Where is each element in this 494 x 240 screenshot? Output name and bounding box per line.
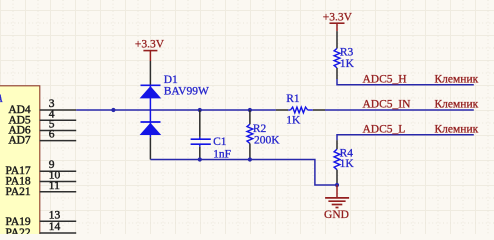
pin 11 (PA21) bbox=[6, 180, 77, 198]
svg-text:ADC5_IN: ADC5_IN bbox=[363, 99, 412, 111]
bottom net wire (diode/C1/R2 commons to GND) bbox=[150, 160, 337, 186]
svg-text:+3.3V: +3.3V bbox=[135, 39, 165, 51]
net label ADC5_H bbox=[363, 74, 407, 86]
wire power to D1 bbox=[149, 61, 151, 85]
resistor R4 1K bbox=[334, 140, 354, 185]
pin 10 (PA18) bbox=[6, 170, 77, 188]
D1 labels bbox=[164, 74, 209, 97]
IC U? body (partial, clipped at left/bottom) bbox=[0, 86, 40, 240]
svg-text:C1: C1 bbox=[213, 136, 227, 148]
svg-text:1nF: 1nF bbox=[213, 149, 231, 161]
net label ADC5_IN bbox=[363, 99, 412, 111]
pin 9 (PA17) bbox=[6, 159, 77, 177]
junction R2 tap bbox=[248, 108, 252, 112]
svg-text:Клемник: Клемник bbox=[435, 99, 479, 111]
diode D1 BAV99W (dual, stacked) bbox=[140, 85, 162, 137]
wire ADC5_L bbox=[337, 135, 474, 141]
svg-text:Клемник: Клемник bbox=[435, 74, 479, 86]
svg-text:1K: 1K bbox=[340, 158, 355, 170]
svg-text:PA22: PA22 bbox=[6, 227, 31, 234]
power +3.3V (right) bbox=[323, 12, 353, 31]
svg-text:R2: R2 bbox=[253, 123, 267, 135]
svg-text:11: 11 bbox=[49, 180, 60, 192]
ground GND bbox=[324, 185, 349, 221]
pin 13 (PA19) bbox=[6, 209, 77, 228]
svg-text:R3: R3 bbox=[340, 47, 354, 59]
IC designator tail "A" bbox=[0, 93, 4, 105]
svg-text:13: 13 bbox=[49, 209, 61, 221]
junction C1 tap bbox=[198, 108, 202, 112]
D1 bottom pin bbox=[149, 137, 151, 159]
junction GND node bbox=[335, 183, 339, 187]
text Клемник (H row) bbox=[435, 74, 479, 86]
svg-text:ADC5_L: ADC5_L bbox=[363, 123, 406, 135]
svg-text:PA19: PA19 bbox=[6, 216, 31, 228]
resistor R3 1K bbox=[334, 31, 355, 79]
capacitor C1 bbox=[191, 110, 231, 161]
text Клемник (L row) bbox=[435, 123, 479, 135]
pin 14 (PA22) bbox=[6, 221, 77, 239]
svg-text:GND: GND bbox=[324, 209, 349, 221]
junction R2 bottom bbox=[248, 157, 252, 161]
resistor R2 200K bbox=[247, 110, 280, 160]
text Клемник (IN row) bbox=[435, 99, 479, 111]
svg-text:1K: 1K bbox=[340, 58, 355, 70]
junction dot on main wire bbox=[111, 108, 115, 112]
svg-text:ADC5_H: ADC5_H bbox=[363, 74, 407, 86]
svg-text:6: 6 bbox=[49, 129, 55, 141]
pin 5 (AD6) bbox=[8, 119, 76, 137]
svg-text:BAV99W: BAV99W bbox=[164, 85, 209, 97]
svg-text:+3.3V: +3.3V bbox=[323, 12, 353, 24]
wire ADC5_H bbox=[337, 79, 474, 85]
wire ADC5_IN (right of R1) bbox=[325, 109, 474, 111]
svg-text:R1: R1 bbox=[286, 93, 300, 105]
wire ADC5_IN main horizontal (left of R1) bbox=[76, 109, 276, 111]
pin 4 (AD5) bbox=[8, 108, 76, 126]
svg-text:AD7: AD7 bbox=[8, 135, 31, 147]
net label ADC5_L bbox=[363, 123, 406, 135]
svg-text:PA21: PA21 bbox=[6, 186, 31, 198]
svg-text:Клемник: Клемник bbox=[435, 123, 479, 135]
junction C1 bottom bbox=[198, 157, 202, 161]
resistor R1 1K bbox=[276, 93, 325, 126]
power +3.3V (left) bbox=[135, 39, 165, 62]
svg-text:200K: 200K bbox=[254, 135, 280, 147]
svg-text:1K: 1K bbox=[286, 114, 301, 126]
svg-text:14: 14 bbox=[49, 221, 61, 233]
pin 6 (AD7) bbox=[8, 129, 76, 147]
pin 3 (AD4) bbox=[8, 98, 76, 116]
